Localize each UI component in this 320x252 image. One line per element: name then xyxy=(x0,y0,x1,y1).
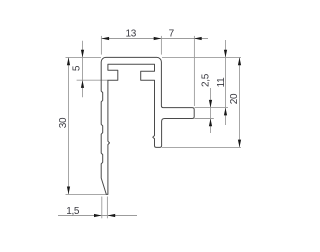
extension line x=107.4 bottom xyxy=(106,197,108,219)
arrow 5 top (outside, pointing down, tip y=57.4) xyxy=(81,50,84,58)
arrow 1,5 right (outside, pointing left, tip x=107.5) xyxy=(108,214,116,217)
dim line 20 (right vertical) xyxy=(239,57,241,147)
svg-text:5: 5 xyxy=(72,65,83,71)
svg-text:1,5: 1,5 xyxy=(66,206,80,217)
arrow 13 left (inside, pointing left, tip x=101.4) xyxy=(101,37,109,40)
extension line x=161.4 top xyxy=(160,36,162,55)
extension line x=194.4 (arm right edge up to top dim line) xyxy=(193,36,195,106)
arrow 13 right / 7 left (pointing right, tip x=161.4) xyxy=(154,37,162,40)
arrow 2,5 bottom (outside, pointing up, tip y=118.6) xyxy=(209,119,212,127)
svg-text:2,5: 2,5 xyxy=(201,73,212,87)
arrow 20 bottom (inside, pointing down, tip y=147.3) xyxy=(238,140,241,148)
extension line foot bottom (y=147.4 to right) xyxy=(162,146,241,148)
svg-text:30: 30 xyxy=(58,117,69,128)
extension line x=101.4 top xyxy=(100,36,102,55)
extension lines xyxy=(66,36,242,218)
svg-text:7: 7 xyxy=(169,29,175,40)
dim line 5 (left vertical) xyxy=(82,41,84,98)
arrow 7 right (outside, pointing left, tip x=194) xyxy=(194,37,202,40)
arrow 5 bottom (outside, pointing up, tip y=80.2) xyxy=(81,80,84,88)
arrow 11 top (outside, pointing down, tip y=57.4) xyxy=(224,50,227,58)
arrow 30 bottom (inside, pointing down, tip y=194.2) xyxy=(67,187,70,195)
profile contour (aluminium extrusion cross-section) xyxy=(101,57,194,194)
svg-text:20: 20 xyxy=(229,93,240,104)
arrow 20 top (inside, pointing up, tip y=57.5) xyxy=(238,58,241,66)
extension line top-left (to left of profile top edge) xyxy=(66,56,102,58)
dim line 11 (right vertical) xyxy=(225,40,227,125)
arrow 11 bottom (outside, pointing up, tip y=107.7) xyxy=(224,108,227,116)
dim line 13/7 (top horizontal) xyxy=(101,38,208,40)
svg-text:13: 13 xyxy=(126,29,137,40)
extension line lip bottom (y=80.2 to left) xyxy=(77,79,108,81)
extension line leg tip (y=194.4 to left) xyxy=(66,193,107,195)
svg-text:11: 11 xyxy=(216,77,227,88)
dim line 1,5 (bottom horizontal) xyxy=(58,215,137,217)
arrow 2,5 top (outside, pointing down, tip y=107.6) xyxy=(209,100,212,108)
arrow 1,5 left (outside, pointing right, tip x=101.7) xyxy=(94,214,102,217)
extension line arm top (y=107.6 to right) xyxy=(195,107,228,109)
extension line x=101.8 bottom xyxy=(101,197,103,219)
dim line 2,5 (right vertical) xyxy=(210,88,212,133)
arrow 30 top (inside, pointing up, tip y=57.5) xyxy=(67,58,70,66)
extension line arm bottom (y=118.5 to right) xyxy=(194,118,213,120)
dimension lines xyxy=(58,39,240,216)
arrowheads xyxy=(67,37,241,217)
extension line top-right (to right of profile top edge) xyxy=(162,56,241,58)
dim line 30 (left vertical) xyxy=(68,57,70,194)
dimension texts xyxy=(58,29,240,217)
